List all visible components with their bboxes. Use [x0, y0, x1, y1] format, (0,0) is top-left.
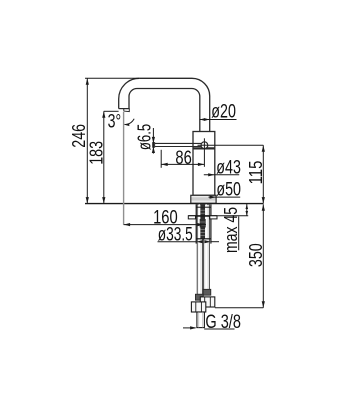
- base plate: [191, 195, 216, 203]
- threaded stud: [200, 204, 205, 239]
- dimension 160: [124, 206, 206, 228]
- right ferrule: [203, 289, 211, 295]
- dimension diam 33.5: [158, 223, 220, 245]
- spout outer outline: [139, 78, 209, 131]
- deck line: [85, 203, 263, 205]
- body: [193, 132, 215, 196]
- shank tube bottom: [196, 238, 211, 240]
- dimension diam 43: [204, 157, 241, 179]
- pivot screw circle: [201, 142, 208, 149]
- handle end cap: [153, 143, 155, 148]
- svg-text:ø43: ø43: [216, 157, 241, 179]
- angle 3 deg: [108, 111, 135, 133]
- svg-text:ø6.5: ø6.5: [134, 124, 155, 150]
- right nut: [200, 297, 215, 307]
- spout outlet left edge: [119, 78, 140, 108]
- svg-text:ø33.5: ø33.5: [158, 223, 193, 245]
- 350 extension line: [215, 307, 263, 309]
- right hose: [204, 204, 210, 290]
- svg-text:max 45: max 45: [220, 207, 241, 253]
- svg-text:G 3/8: G 3/8: [205, 311, 241, 333]
- left nut: [191, 302, 205, 312]
- svg-text:ø20: ø20: [211, 100, 236, 122]
- pivot crosshair vertical: [203, 138, 205, 167]
- svg-text:ø50: ø50: [216, 179, 241, 201]
- outlet extension line (grey): [123, 112, 125, 225]
- dimension 246: [68, 78, 140, 203]
- dimension diam 50: [209, 179, 242, 201]
- dimension 86: [161, 147, 204, 169]
- spout inner outline: [129, 89, 200, 132]
- svg-text:115: 115: [245, 161, 266, 185]
- spout aerator lip: [124, 109, 130, 112]
- G3/8 tube: [197, 312, 205, 328]
- svg-text:183: 183: [85, 141, 106, 165]
- shank tube right line / dim33.5 ext: [210, 204, 212, 243]
- spout outlet tip: [119, 108, 129, 110]
- dimension diam 6.5: [134, 124, 156, 154]
- dimension max 45: [220, 204, 248, 253]
- dimension 183: [85, 111, 118, 203]
- max45 extension line: [217, 215, 248, 217]
- handle rod: [154, 142, 202, 144]
- shank collar line: [196, 206, 211, 208]
- svg-text:3°: 3°: [108, 111, 122, 133]
- svg-text:86: 86: [175, 147, 191, 169]
- left ferrule: [195, 294, 203, 300]
- dimension 350: [245, 204, 266, 307]
- mounting washer: [188, 215, 217, 217]
- shank tube left line / dim33.5 ext: [195, 204, 197, 243]
- body seam: [193, 147, 215, 149]
- left hose: [197, 204, 202, 295]
- svg-text:350: 350: [245, 243, 266, 267]
- dimension diam 20: [200, 100, 237, 122]
- pivot crosshair horizontal / 115 extension: [198, 144, 264, 146]
- label G 3/8: [183, 311, 241, 333]
- dimension 115: [245, 145, 266, 203]
